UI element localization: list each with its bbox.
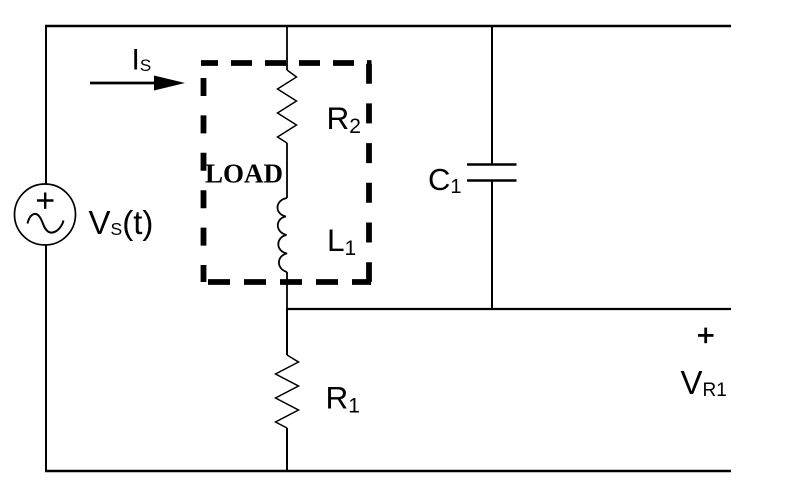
polarity plus for VR1 [698, 328, 714, 344]
voltage source VS (AC source circle) [15, 184, 76, 245]
wire R2 to L1 [286, 143, 288, 198]
wire middle rail to R1 [286, 309, 288, 355]
wire bottom rail [45, 470, 731, 473]
current arrow IS [90, 76, 185, 91]
dashed LOAD box [201, 63, 372, 282]
wire left upper (source top lead) [45, 25, 47, 184]
svg-text:LOAD: LOAD [205, 159, 283, 189]
wire R1 to bottom rail [286, 428, 288, 472]
wire top rail to C1 [491, 26, 493, 164]
wire top rail to R2 [286, 26, 288, 70]
wire L1 to middle rail [286, 272, 288, 310]
capacitor C1 [467, 165, 517, 181]
wire middle rail (node between load and R1) [287, 308, 731, 310]
wire left lower (source bottom lead) [45, 245, 47, 472]
inductor L1 [277, 198, 287, 272]
wire C1 to middle rail [491, 182, 493, 310]
resistor R1 [276, 355, 299, 428]
resistor R2 [278, 70, 297, 143]
wire top rail [45, 25, 731, 27]
